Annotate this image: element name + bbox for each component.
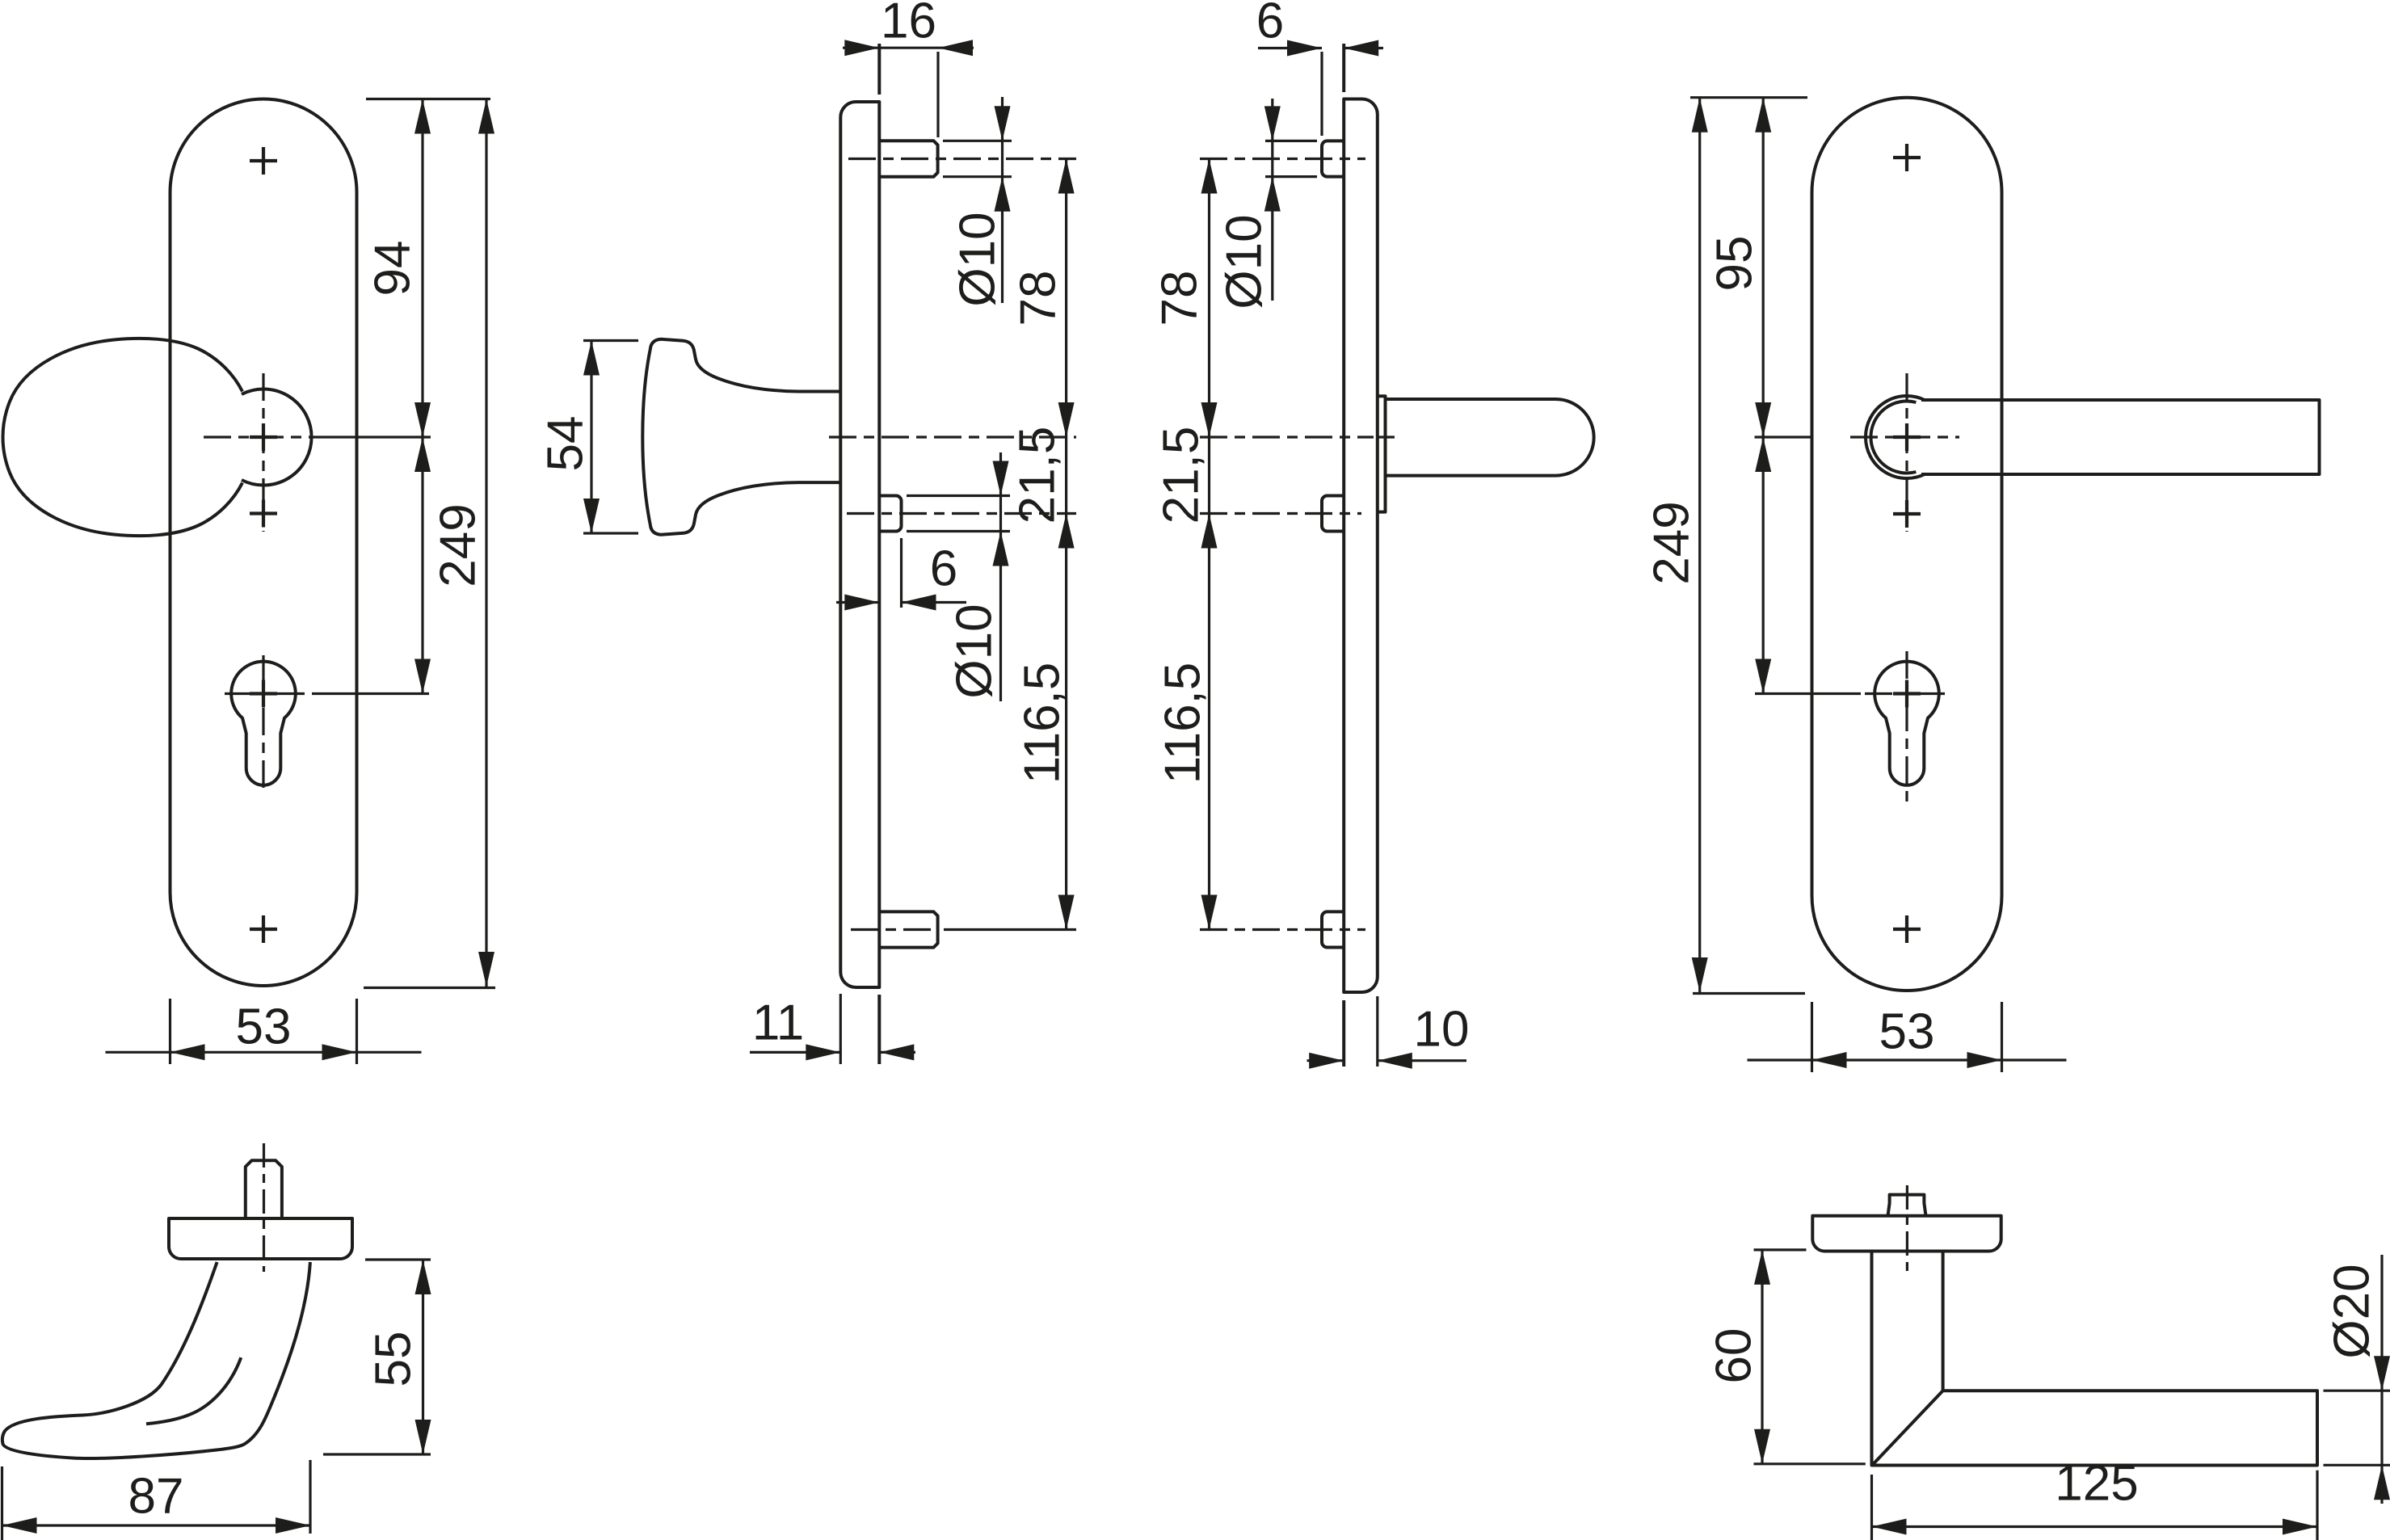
- dimension 95 line with arrows: [1762, 98, 1765, 437]
- dimension 53 line with arrows: [106, 1051, 422, 1054]
- dimension 249 line with arrows (fig4): [1698, 98, 1701, 992]
- figure 1: knob vertical centerline: [262, 373, 264, 532]
- svg-text:6: 6: [930, 541, 957, 597]
- figure 4: bottom screw cross: [1893, 915, 1921, 943]
- dimension center-to-cylinder line with arrows: [421, 437, 423, 694]
- figure 4: top screw cross: [1893, 144, 1921, 171]
- svg-text:Ø10: Ø10: [950, 212, 1006, 306]
- figure 2: plate back face extension above (dim 16): [877, 44, 881, 95]
- dimension 54: line with arrows: [590, 341, 592, 534]
- dimension 54: extension lines: [583, 339, 638, 342]
- figure 1: euro profile cylinder hole: [231, 662, 296, 785]
- figure 4: lever grip bar: [1921, 400, 2320, 474]
- figure 3: bottom bolt centerline: [1200, 928, 1365, 931]
- figure 3: lower fixing bolt stub: [1322, 496, 1344, 532]
- dimension 116,5 bottom arrow (fig2): [1058, 895, 1075, 930]
- dimension 10: extension lines: [1376, 996, 1378, 1067]
- svg-text:Ø20: Ø20: [2325, 1264, 2380, 1358]
- dimension 6 (fig2): line with outside arrows: [836, 601, 880, 604]
- svg-text:249: 249: [1644, 501, 1700, 584]
- figure 2: bottom bolt centerline: [851, 928, 939, 931]
- svg-text:94: 94: [365, 241, 421, 297]
- figure 1: extension line knob center to dimension: [322, 435, 431, 438]
- figure 5: knob rose cap: [169, 1218, 352, 1259]
- figure 4: extension line handle center to dimension: [1755, 435, 1812, 438]
- dimension O20: line and outside arrows: [2380, 1255, 2383, 1504]
- dimension 78 line (fig3) with arrows: [1208, 159, 1210, 930]
- figure 5: knob spindle centerline: [263, 1143, 265, 1272]
- figure 3: plate back face extension below (dim 10): [1342, 1000, 1345, 1067]
- figure 4: lever neck collar outer arc: [1866, 396, 1925, 478]
- svg-text:11: 11: [752, 995, 804, 1051]
- figure 1: cylinder vertical centerline: [262, 655, 264, 788]
- dimension 55: line with arrows: [422, 1260, 424, 1454]
- dimension 78 line (fig2) with arrows: [1065, 159, 1067, 930]
- dimension 53 extension lines: [169, 999, 171, 1064]
- dimension O20: extension lines: [2324, 1390, 2390, 1392]
- figure 2: knob plate side view - plate cross-section: [840, 102, 879, 987]
- dimension 11: extension lines: [839, 994, 842, 1064]
- figure 6: lever neck and grip outline: [1872, 1252, 2318, 1466]
- svg-text:55: 55: [366, 1332, 422, 1387]
- dimension 21,5 arrows (fig3): [1201, 514, 1218, 549]
- figure 6: lever spindle centerline: [1906, 1185, 1908, 1274]
- dimension O10 (fig3): line and outside arrows: [1271, 99, 1273, 301]
- figure 1: top screw cross: [250, 147, 277, 175]
- svg-text:Ø10: Ø10: [947, 604, 1003, 698]
- svg-text:53: 53: [236, 999, 292, 1055]
- svg-text:95: 95: [1707, 236, 1763, 292]
- figure 6: lever spindle stub: [1888, 1195, 1926, 1216]
- dimension 6 (fig2): extension line at stub end: [900, 538, 903, 608]
- dimension 60: extension lines: [1754, 1248, 1807, 1251]
- figure 3: top bolt centerline: [1200, 158, 1365, 160]
- dimension 249 extension line at plate bottom (fig4): [1693, 992, 1805, 995]
- figure 4: handle horizontal centerline: [1850, 435, 1959, 438]
- figure 4: handle center cross: [1893, 423, 1921, 451]
- dimension 60: line with arrows: [1761, 1250, 1763, 1464]
- figure 4: euro profile cylinder hole: [1875, 662, 1939, 785]
- dimension 95 extension line at plate top: [1690, 96, 1807, 99]
- figure 3: plate back face extension above (dim 6): [1342, 44, 1345, 92]
- svg-text:21,5: 21,5: [1010, 427, 1066, 524]
- dimension 10: line with outside arrows: [1307, 1059, 1344, 1062]
- svg-text:Ø10: Ø10: [1217, 214, 1273, 309]
- dimension 55: extension lines: [365, 1258, 431, 1260]
- dimension 53 line with arrows (fig4): [1748, 1058, 2067, 1061]
- figure 3: lever shoulder: [1378, 396, 1386, 511]
- figure 2: lower bolt centerline: [847, 512, 1076, 515]
- figure 1: cylinder center cross: [250, 680, 277, 708]
- figure 2: plate back face extension below (dim 11): [877, 995, 881, 1064]
- svg-text:116,5: 116,5: [1015, 663, 1071, 785]
- figure 2: top bolt centerline: [848, 158, 1076, 160]
- figure 2: top fixing bolt sleeve (O10 x 16): [879, 141, 937, 176]
- dimension O10 bottom: extension lines: [907, 494, 1010, 497]
- figure 6: lever elbow diagonal: [1872, 1391, 1943, 1465]
- dimension 16 line with outside arrows: [843, 47, 974, 49]
- dimension 249 extension line at plate bottom: [364, 987, 495, 989]
- dimension 11: line with outside arrows: [750, 1051, 840, 1054]
- figure 5: knob body profile outline: [2, 1262, 310, 1458]
- figure 2: bottom fixing bolt sleeve (O10 x 16): [879, 911, 937, 947]
- svg-text:78: 78: [1011, 271, 1067, 326]
- figure 3: lower bolt centerline: [1200, 512, 1361, 515]
- dimension 6 (fig3): extension line at bolt end: [1320, 52, 1323, 136]
- figure 2: handle centerline: [829, 435, 1076, 438]
- figure 4: cylinder vertical centerline: [1905, 651, 1908, 802]
- dimension 94 line with arrows: [421, 99, 423, 438]
- dimension 87: line with arrows: [2, 1524, 311, 1526]
- dimension 16 extension line at sleeve tip: [936, 52, 939, 137]
- figure 4: lever backplate front view - plate outline (53x249 stadium): [1812, 98, 2002, 991]
- figure 3: handle centerline: [1200, 435, 1374, 438]
- figure 1: knob backplate front view - plate outline (53x249 stadium): [170, 99, 357, 986]
- svg-text:87: 87: [128, 1469, 184, 1525]
- svg-text:60: 60: [1706, 1328, 1762, 1384]
- svg-text:10: 10: [1414, 1002, 1470, 1058]
- svg-text:16: 16: [881, 0, 936, 49]
- dimension 116,5 bottom arrow (fig3): [1201, 895, 1218, 930]
- dimension 125: extension lines: [1870, 1475, 1873, 1540]
- dimension 125: line with arrows: [1872, 1525, 2318, 1528]
- svg-text:125: 125: [2055, 1456, 2138, 1512]
- figure 1: cylinder horizontal centerline: [225, 692, 312, 695]
- svg-text:249: 249: [431, 503, 486, 587]
- figure 2: lower fixing bolt stub (6 long): [879, 496, 901, 532]
- dimension O10 top: extension lines: [943, 140, 1012, 142]
- figure 4: cylinder center cross: [1893, 680, 1921, 708]
- svg-text:78: 78: [1152, 271, 1208, 326]
- figure 3: top fixing bolt stub: [1322, 141, 1344, 176]
- dimension 53 extension lines (fig4): [1811, 1002, 1813, 1072]
- dimension O10 top: line and outside arrows: [1001, 97, 1004, 303]
- dimension O10 bottom: line and outside arrows: [999, 452, 1002, 701]
- dimension 94 extension line at plate top: [366, 98, 490, 100]
- dimension 6 (fig3): line with outside arrows: [1258, 47, 1322, 49]
- figure 4: extension line cylinder to dimension: [1755, 692, 1861, 695]
- svg-text:6: 6: [1256, 0, 1284, 49]
- figure 6: lever rose cap: [1812, 1216, 2001, 1252]
- svg-text:54: 54: [538, 416, 594, 472]
- figure 2: knob side profile outline: [642, 339, 840, 535]
- figure 1: knob neck bump arc: [242, 389, 312, 486]
- figure 5: knob spindle stub: [246, 1160, 282, 1218]
- svg-text:116,5: 116,5: [1155, 663, 1211, 785]
- figure 1: knob body outline: [3, 339, 243, 536]
- dimension 249 line with arrows: [485, 99, 487, 987]
- figure 3: lever grip capsule: [1386, 399, 1594, 476]
- dimension 21,5 arrows (fig2): [1058, 514, 1075, 549]
- figure 3: lever plate side view - plate cross-section: [1344, 99, 1378, 993]
- figure 1: lower fixing bolt cross: [250, 500, 277, 528]
- figure 1: knob horizontal centerline: [204, 435, 322, 438]
- figure 4: handle vertical centerline: [1905, 373, 1908, 532]
- figure 5: knob body crease line: [146, 1357, 241, 1424]
- dimension 87: extension lines: [1, 1466, 3, 1540]
- dimension O10 (fig3): extension lines: [1265, 140, 1317, 142]
- svg-text:21,5: 21,5: [1154, 427, 1210, 524]
- figure 1: center cross of knob: [250, 423, 277, 451]
- figure 1: extension line cylinder to dimension: [312, 692, 429, 695]
- dimension center-to-cylinder line with arrows (fig4): [1762, 437, 1765, 694]
- figure 1: bottom screw cross: [250, 915, 277, 943]
- figure 4: cylinder horizontal centerline: [1865, 692, 1949, 695]
- figure 4: lever neck collar inner arc: [1870, 402, 1916, 473]
- figure 4: lower fixing bolt cross: [1893, 500, 1921, 528]
- svg-text:53: 53: [1879, 1004, 1935, 1060]
- figure 3: bottom fixing bolt stub: [1322, 911, 1344, 947]
